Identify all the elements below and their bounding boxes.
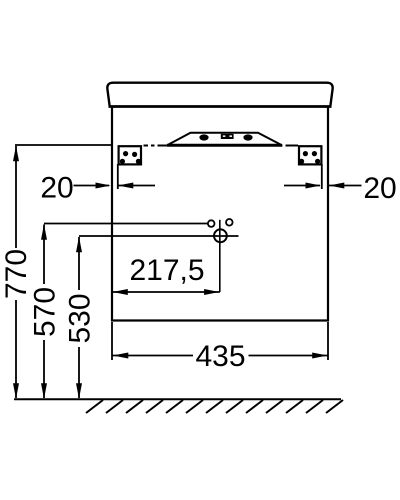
dim 530 vertical line bbox=[78, 237, 80, 290]
supply line 570 bbox=[44, 223, 208, 225]
svg-text:20: 20 bbox=[363, 172, 396, 205]
rail base bar bbox=[167, 144, 282, 147]
dim 20 right leader bbox=[284, 185, 320, 187]
drawer rail trapezoid bbox=[169, 133, 281, 145]
cabinet bbox=[112, 107, 328, 321]
svg-text:435: 435 bbox=[195, 340, 245, 373]
rail dash-dot line right segment bbox=[280, 145, 298, 147]
dim 770 top arrow bbox=[13, 146, 19, 162]
dim 570 vertical line bbox=[43, 225, 45, 285]
bracket right extension line bbox=[321, 164, 323, 189]
dim 217,5 line bbox=[112, 291, 220, 293]
dim 570 bottom arrow bbox=[41, 383, 47, 399]
dim 435 extension left bbox=[111, 322, 113, 360]
dim 570 top arrow bbox=[41, 224, 47, 240]
svg-text:570: 570 bbox=[29, 287, 62, 337]
countertop bottom edge bbox=[109, 105, 332, 107]
dim 530 bottom arrow bbox=[76, 383, 82, 399]
bracket left extension line bbox=[117, 164, 119, 189]
supply circle left bbox=[208, 220, 215, 227]
dim 530 top arrow bbox=[76, 237, 82, 253]
rail roller left bbox=[199, 134, 208, 140]
770 reference line bbox=[15, 144, 112, 146]
ground hatching bbox=[86, 400, 343, 413]
dim 217,5 left arrow bbox=[113, 289, 128, 295]
dim 20 left leader bbox=[74, 185, 110, 187]
countertop bbox=[107, 83, 332, 107]
dim 20 left inner arrow bbox=[118, 185, 155, 187]
bracket left bbox=[119, 146, 141, 164]
dim 435 right arrow bbox=[312, 353, 327, 359]
dim 770 vertical line bbox=[15, 146, 17, 248]
svg-text:217,5: 217,5 bbox=[129, 254, 204, 287]
rail clip bbox=[221, 134, 234, 139]
ground line bbox=[14, 398, 341, 400]
dim 217,5 right arrow bbox=[204, 289, 219, 295]
dim 435 extension right bbox=[327, 322, 329, 360]
dim 20 right outer arrow bbox=[329, 185, 362, 187]
svg-text:20: 20 bbox=[40, 172, 73, 205]
rail roller right bbox=[243, 134, 252, 140]
rail dash-dot line left segment bbox=[144, 145, 170, 147]
drain axis vertical line bbox=[219, 220, 221, 292]
drain line 530 bbox=[79, 235, 239, 237]
dim 770 bottom arrow bbox=[13, 383, 19, 399]
dim 435 line bbox=[113, 355, 194, 357]
bracket right bbox=[299, 146, 321, 164]
supply circle right bbox=[226, 219, 233, 226]
svg-text:530: 530 bbox=[64, 293, 97, 343]
dim 435 left arrow bbox=[113, 353, 128, 359]
drain crosshair circle bbox=[214, 229, 227, 242]
